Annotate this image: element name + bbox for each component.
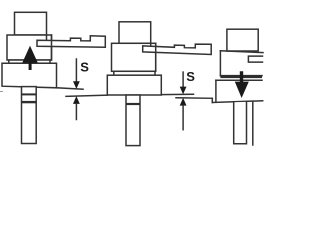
left top block edge extension: [46, 35, 48, 41]
right strip tab piece: [248, 56, 262, 62]
middle middle block right edge over strip: [155, 43, 157, 71]
ground step down: [211, 98, 213, 102]
middle ground line: [176, 97, 212, 100]
ground line left-to-middle: [66, 95, 107, 96]
left strip with tab: [37, 36, 105, 47]
middle shank groove band: [126, 103, 140, 105]
middle thin plate: [114, 71, 155, 75]
middle dimension upper line: [182, 72, 184, 87]
right extra edge line: [252, 102, 254, 145]
right base block left edge: [215, 80, 217, 102]
left edge dash: [0, 91, 3, 93]
middle dimension lower line: [182, 106, 184, 130]
middle strip with tab: [143, 44, 212, 54]
middle shank: [126, 95, 140, 146]
left middle block: [7, 35, 52, 60]
right down arrow: [235, 71, 249, 98]
middle base block: [107, 75, 161, 95]
right middle block left edge: [219, 51, 221, 76]
left dimension upper line: [75, 59, 77, 82]
middle middle block: [112, 43, 156, 71]
middle dimension down arrowhead: [180, 87, 187, 95]
right block-plate dark band: [220, 75, 262, 78]
left dimension up arrowhead: [73, 96, 80, 104]
right base block top edge: [216, 79, 262, 81]
left dimension down arrowhead: [73, 81, 80, 89]
left top block: [15, 12, 47, 35]
left middle block right edge over strip: [51, 35, 53, 60]
left shank: [22, 87, 37, 144]
right base bottom line: [212, 101, 262, 103]
right top block: [227, 29, 258, 51]
left shank groove band 2: [22, 101, 37, 103]
svg-text:S: S: [186, 69, 195, 84]
left up arrow: [22, 46, 38, 70]
left thin plate: [9, 60, 50, 63]
middle dimension up arrowhead: [180, 98, 187, 106]
right shank: [234, 102, 247, 144]
middle base bottom tick line: [161, 93, 193, 95]
left dimension lower line: [75, 104, 77, 120]
left base bottom tick line: [57, 88, 84, 89]
svg-text:S: S: [80, 59, 89, 74]
left base block: [2, 63, 57, 88]
left shank groove band 1: [22, 93, 37, 95]
right middle block top edge: [220, 51, 263, 53]
middle top block edge extension: [150, 43, 152, 46]
right middle block bottom edge: [220, 75, 262, 77]
middle top block: [119, 22, 151, 44]
